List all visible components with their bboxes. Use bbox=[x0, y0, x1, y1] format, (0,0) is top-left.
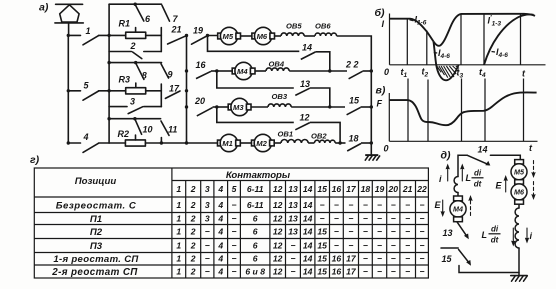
arrow coil right down bbox=[512, 228, 529, 246]
switch 18 bbox=[347, 144, 361, 152]
svg-text:−: − bbox=[231, 214, 236, 224]
graph v gridline t2 bbox=[427, 80, 429, 142]
svg-text:6: 6 bbox=[253, 241, 258, 251]
table row line 3 bbox=[34, 238, 428, 240]
wire R2 top rail bbox=[109, 118, 161, 120]
svg-text:М3: М3 bbox=[233, 103, 244, 112]
wire feeder bus bbox=[67, 35, 69, 143]
wire OB2 to sw18 bbox=[335, 142, 345, 144]
svg-text:−: − bbox=[290, 254, 295, 264]
switch 1 bbox=[68, 35, 109, 44]
svg-text:4: 4 bbox=[217, 241, 223, 251]
table row bezreostat bbox=[56, 200, 425, 212]
graph v gridline t1 bbox=[407, 79, 409, 142]
svg-text:4: 4 bbox=[217, 227, 223, 237]
graph v gridline t bbox=[523, 79, 525, 142]
node center bus row1 bbox=[185, 34, 188, 37]
svg-text:ОВ5: ОВ5 bbox=[286, 22, 302, 31]
svg-text:−: − bbox=[405, 241, 410, 251]
svg-text:1-я реостат. СП: 1-я реостат. СП bbox=[53, 254, 139, 265]
motor M2 bbox=[252, 134, 275, 151]
svg-text:2 2: 2 2 bbox=[345, 60, 359, 70]
svg-text:2: 2 bbox=[190, 184, 196, 194]
svg-text:−: − bbox=[205, 267, 210, 277]
winding OB6 bbox=[315, 33, 337, 36]
svg-text:R1: R1 bbox=[119, 19, 131, 29]
switch 5 bbox=[68, 91, 109, 100]
graph b gridline t4 bbox=[483, 14, 485, 65]
wire center bus bbox=[186, 36, 188, 144]
svg-text:−: − bbox=[363, 267, 368, 277]
wire bypass 13 bbox=[217, 71, 330, 107]
svg-text:1: 1 bbox=[176, 254, 181, 264]
svg-text:1: 1 bbox=[86, 26, 91, 36]
graph b gridline t bbox=[520, 15, 522, 65]
node right bus row4 bbox=[370, 141, 373, 144]
svg-text:П1: П1 bbox=[90, 214, 102, 225]
svg-text:12: 12 bbox=[273, 200, 283, 210]
svg-text:−: − bbox=[334, 214, 339, 224]
svg-text:д): д) bbox=[441, 150, 451, 162]
svg-text:М4: М4 bbox=[237, 67, 248, 76]
wire row3 left of R3 bbox=[109, 90, 126, 92]
ground schematic bbox=[365, 155, 380, 161]
svg-text:19: 19 bbox=[375, 184, 385, 194]
switch 19 bbox=[192, 36, 218, 45]
svg-text:15: 15 bbox=[442, 254, 453, 264]
curve F bbox=[389, 92, 536, 125]
motor M4 bbox=[232, 62, 255, 79]
graph v gridline t3 bbox=[461, 79, 463, 142]
switch 21 bbox=[168, 36, 187, 44]
wire left bus bbox=[108, 4, 110, 143]
switch 10 bbox=[135, 120, 141, 134]
wire R3 top rail bbox=[109, 62, 161, 64]
wire bypass 3 right bbox=[144, 106, 162, 108]
svg-text:−: − bbox=[231, 227, 236, 237]
table line under header bbox=[34, 196, 428, 198]
svg-text:13: 13 bbox=[443, 228, 453, 238]
wire M4 to OB4 bbox=[255, 70, 266, 72]
svg-text:−: − bbox=[231, 200, 236, 210]
node row2 bypass14 bbox=[328, 69, 331, 72]
winding OB5 bbox=[281, 33, 304, 36]
svg-text:4: 4 bbox=[83, 132, 89, 142]
svg-text:М5: М5 bbox=[514, 167, 525, 176]
table row line 1 bbox=[34, 212, 428, 214]
label L di/dt left bbox=[466, 169, 484, 189]
svg-text:−: − bbox=[363, 241, 368, 251]
svg-text:10: 10 bbox=[143, 125, 153, 135]
svg-text:F: F bbox=[377, 99, 383, 109]
motor M6 d bbox=[511, 180, 527, 205]
switch 16 bbox=[196, 71, 218, 79]
wire bypass 3 left bbox=[109, 106, 127, 108]
svg-text:13: 13 bbox=[288, 214, 298, 224]
svg-text:14: 14 bbox=[303, 267, 313, 277]
wire OB5 to OB6 bbox=[304, 35, 315, 37]
motor M5 d bbox=[511, 160, 527, 180]
node row3 bypass13 bbox=[328, 105, 331, 108]
switch 8 bbox=[136, 64, 144, 80]
wire row2 to sw22 bbox=[289, 70, 347, 72]
wire R2 right stub bbox=[160, 138, 162, 143]
svg-text:Позиции: Позиции bbox=[75, 176, 117, 187]
switch 4 bbox=[68, 143, 109, 152]
svg-text:1: 1 bbox=[176, 267, 181, 277]
switch 6 bbox=[136, 5, 144, 21]
node left bus R3 rail bbox=[107, 61, 110, 64]
graph b axes bbox=[390, 14, 546, 65]
node row4 R2 right bbox=[160, 141, 163, 144]
svg-text:ОВ2: ОВ2 bbox=[311, 132, 327, 141]
svg-text:−: − bbox=[320, 214, 325, 224]
svg-text:П3: П3 bbox=[90, 241, 103, 252]
switch 3 bbox=[128, 107, 143, 114]
svg-text:di: di bbox=[491, 225, 499, 234]
svg-text:12: 12 bbox=[273, 267, 283, 277]
wire row3 right of R3 bbox=[146, 90, 162, 92]
graph b gridline t1 bbox=[406, 19, 408, 65]
svg-text:−: − bbox=[348, 214, 353, 224]
node center bus row4 bbox=[185, 141, 188, 144]
wire row3 to M3 bbox=[217, 106, 228, 108]
wire row1 left of R1 bbox=[109, 34, 126, 36]
arrow E left bbox=[441, 200, 444, 216]
wire bypass 14 bbox=[208, 36, 330, 72]
svg-text:12: 12 bbox=[273, 184, 283, 194]
motor M3 bbox=[228, 98, 251, 115]
table row P2 bbox=[90, 227, 425, 239]
svg-text:13: 13 bbox=[288, 184, 298, 194]
svg-text:14: 14 bbox=[303, 200, 313, 210]
svg-text:9: 9 bbox=[168, 70, 173, 80]
arrow E right bbox=[504, 176, 507, 192]
svg-text:6-11: 6-11 bbox=[247, 184, 264, 194]
svg-text:17: 17 bbox=[346, 267, 357, 277]
switch 13 d bbox=[457, 222, 468, 238]
wire M3 to OB3 bbox=[251, 106, 268, 108]
svg-text:−: − bbox=[348, 227, 353, 237]
svg-text:4: 4 bbox=[217, 267, 223, 277]
motor M5 bbox=[218, 27, 241, 44]
svg-text:2: 2 bbox=[190, 241, 196, 251]
svg-text:20: 20 bbox=[388, 184, 399, 194]
svg-text:R3: R3 bbox=[119, 75, 131, 85]
svg-text:−: − bbox=[419, 227, 424, 237]
svg-text:12: 12 bbox=[273, 254, 283, 264]
svg-text:17: 17 bbox=[346, 254, 357, 264]
svg-text:−: − bbox=[419, 200, 424, 210]
wire row1 to right bus bbox=[337, 36, 372, 155]
motor M6 bbox=[252, 27, 275, 44]
svg-text:а): а) bbox=[39, 2, 49, 14]
svg-text:3: 3 bbox=[205, 184, 210, 194]
svg-text:П2: П2 bbox=[90, 227, 103, 238]
svg-text:М1: М1 bbox=[222, 139, 233, 148]
svg-text:М2: М2 bbox=[256, 139, 267, 148]
svg-text:−: − bbox=[363, 227, 368, 237]
arrow i left pair bbox=[446, 165, 464, 182]
switch 9 bbox=[161, 64, 169, 78]
svg-text:−: − bbox=[231, 254, 236, 264]
node right bus row3 bbox=[370, 105, 373, 108]
svg-text:3: 3 bbox=[205, 214, 210, 224]
label L di/dt right bbox=[482, 225, 501, 245]
svg-text:4: 4 bbox=[217, 254, 223, 264]
svg-text:−: − bbox=[363, 254, 368, 264]
svg-text:16: 16 bbox=[332, 267, 342, 277]
svg-text:М6: М6 bbox=[514, 188, 525, 197]
svg-text:−: − bbox=[405, 214, 410, 224]
svg-text:−: − bbox=[205, 254, 210, 264]
ground d bbox=[511, 276, 527, 282]
node row1 tap14 bbox=[206, 34, 209, 37]
table row P1 bbox=[90, 214, 425, 226]
svg-text:14: 14 bbox=[303, 184, 313, 194]
arrows dashed right branch bbox=[533, 161, 535, 198]
svg-text:ОВ4: ОВ4 bbox=[269, 60, 285, 69]
graph b gridline t2 bbox=[426, 31, 428, 65]
curve I4-6 reverse lobe bbox=[434, 42, 459, 81]
svg-text:dt: dt bbox=[491, 236, 499, 245]
svg-text:−: − bbox=[419, 267, 424, 277]
switch 15 d bbox=[459, 250, 471, 265]
svg-text:−: − bbox=[405, 254, 410, 264]
svg-text:−: − bbox=[205, 227, 210, 237]
svg-text:М5: М5 bbox=[223, 32, 234, 41]
svg-text:в): в) bbox=[376, 85, 386, 97]
svg-text:dt: dt bbox=[474, 180, 482, 189]
svg-text:13: 13 bbox=[288, 227, 298, 237]
svg-text:16: 16 bbox=[196, 60, 207, 70]
svg-text:12: 12 bbox=[300, 113, 310, 123]
table col line pos bbox=[171, 168, 173, 278]
svg-text:17: 17 bbox=[346, 184, 357, 194]
svg-text:−: − bbox=[377, 214, 382, 224]
svg-text:ОВ3: ОВ3 bbox=[272, 92, 288, 101]
switch 14 d bbox=[458, 155, 520, 176]
svg-text:−: − bbox=[405, 227, 410, 237]
svg-text:−: − bbox=[391, 254, 396, 264]
switch 17 bbox=[165, 91, 180, 98]
resistor R3 bbox=[126, 83, 146, 94]
svg-text:4: 4 bbox=[217, 200, 223, 210]
table row 1ya reostat bbox=[53, 254, 424, 266]
svg-text:−: − bbox=[231, 267, 236, 277]
svg-text:−: − bbox=[391, 214, 396, 224]
svg-text:14: 14 bbox=[478, 145, 488, 155]
svg-text:−: − bbox=[377, 227, 382, 237]
svg-text:11: 11 bbox=[168, 125, 177, 135]
svg-text:4: 4 bbox=[217, 184, 223, 194]
svg-text:6: 6 bbox=[253, 214, 258, 224]
svg-text:ОВ1: ОВ1 bbox=[278, 130, 294, 139]
wire coil to M4 bbox=[457, 193, 459, 197]
svg-text:−: − bbox=[377, 267, 382, 277]
wire R1 right node vertical bbox=[160, 28, 162, 52]
node center bus row3 bbox=[185, 105, 188, 108]
svg-text:б): б) bbox=[375, 7, 386, 19]
curve I1-6 bbox=[390, 19, 434, 42]
wire M6 to OB5 bbox=[275, 35, 282, 37]
svg-text:14: 14 bbox=[303, 214, 313, 224]
svg-text:22: 22 bbox=[416, 184, 427, 194]
svg-text:16: 16 bbox=[332, 184, 342, 194]
switch 7 bbox=[162, 5, 170, 21]
table row line 4 bbox=[34, 252, 428, 254]
wire M6 to coil bbox=[518, 204, 520, 208]
svg-text:4: 4 bbox=[217, 214, 223, 224]
motor M1 bbox=[218, 134, 241, 151]
resistor R1 bbox=[126, 28, 146, 39]
svg-text:15: 15 bbox=[317, 184, 327, 194]
svg-text:13: 13 bbox=[288, 200, 298, 210]
winding OB1 bbox=[281, 139, 308, 143]
svg-text:19: 19 bbox=[193, 26, 203, 36]
svg-text:21: 21 bbox=[171, 25, 182, 35]
node left bus R2 rail bbox=[107, 117, 110, 120]
inductor L right bbox=[515, 208, 519, 248]
svg-text:3: 3 bbox=[205, 200, 210, 210]
svg-text:6: 6 bbox=[253, 254, 258, 264]
svg-text:21: 21 bbox=[402, 184, 413, 194]
table header texts bbox=[75, 170, 291, 187]
svg-text:12: 12 bbox=[273, 241, 283, 251]
svg-text:−: − bbox=[405, 267, 410, 277]
svg-text:−: − bbox=[290, 267, 295, 277]
svg-text:2: 2 bbox=[190, 214, 196, 224]
svg-text:1: 1 bbox=[176, 214, 181, 224]
svg-text:−: − bbox=[334, 241, 339, 251]
svg-text:14: 14 bbox=[303, 241, 313, 251]
svg-text:−: − bbox=[377, 200, 382, 210]
svg-text:−: − bbox=[405, 200, 410, 210]
wire coil to ground bbox=[518, 248, 520, 276]
winding OB2 bbox=[314, 140, 335, 143]
pointer I1-6 bbox=[410, 20, 414, 21]
svg-text:R2: R2 bbox=[118, 129, 130, 139]
arrow dashed M4 bbox=[470, 198, 472, 216]
svg-text:6-11: 6-11 bbox=[247, 200, 264, 210]
svg-text:−: − bbox=[419, 241, 424, 251]
table row line 2 bbox=[34, 224, 428, 226]
winding OB4 bbox=[266, 68, 289, 71]
svg-text:2: 2 bbox=[130, 41, 136, 51]
wire row3 to sw15 bbox=[291, 106, 345, 108]
winding OB3 bbox=[268, 104, 291, 107]
wire sw18 to bus bbox=[361, 142, 371, 144]
graph v gridline t4 bbox=[484, 79, 486, 142]
wire row1 right of R1 bbox=[146, 34, 162, 36]
svg-text:1: 1 bbox=[176, 241, 181, 251]
pointer I4-6a bbox=[434, 52, 437, 55]
node row3 tap12 bbox=[215, 105, 218, 108]
switch 22 bbox=[349, 71, 363, 79]
node feeder row3 bbox=[67, 89, 70, 92]
svg-text:5: 5 bbox=[232, 184, 237, 194]
node center bus row3sec bbox=[185, 89, 188, 92]
svg-text:−: − bbox=[231, 241, 236, 251]
svg-text:−: − bbox=[348, 241, 353, 251]
switch 15 bbox=[347, 107, 361, 114]
svg-text:8: 8 bbox=[142, 71, 147, 81]
svg-text:12: 12 bbox=[273, 227, 283, 237]
svg-text:L: L bbox=[466, 173, 472, 183]
resistor R2 bbox=[125, 135, 145, 146]
svg-text:13: 13 bbox=[300, 79, 310, 89]
node R2 rail tap bbox=[133, 117, 136, 120]
svg-text:15: 15 bbox=[317, 267, 327, 277]
curve I4-6 rising bbox=[484, 14, 534, 64]
svg-text:ОВ6: ОВ6 bbox=[315, 22, 331, 31]
pantograph XA bbox=[55, 4, 83, 35]
wire stub 15 bbox=[441, 247, 458, 249]
table header line kontaktory bbox=[172, 180, 429, 182]
svg-text:6: 6 bbox=[253, 227, 258, 237]
svg-text:14: 14 bbox=[303, 227, 313, 237]
table col lines bbox=[186, 181, 416, 279]
node R3 rail tap bbox=[134, 61, 137, 64]
svg-text:1: 1 bbox=[176, 184, 181, 194]
svg-text:E: E bbox=[435, 200, 442, 210]
node row4 bypass12 bbox=[338, 141, 341, 144]
graph b gridline t3 bbox=[460, 14, 462, 65]
svg-text:−: − bbox=[391, 241, 396, 251]
wire row2 to M4 bbox=[217, 70, 232, 72]
node feeder row4 bbox=[67, 141, 70, 144]
svg-text:2: 2 bbox=[190, 267, 196, 277]
node right bus row2 bbox=[370, 69, 373, 72]
svg-text:15: 15 bbox=[317, 254, 327, 264]
wire R3 right node vertical bbox=[160, 84, 162, 107]
wire bypass 12 bbox=[217, 107, 340, 143]
svg-text:г): г) bbox=[30, 154, 40, 166]
svg-text:2: 2 bbox=[190, 254, 196, 264]
table outer frame bbox=[34, 168, 428, 278]
svg-text:−: − bbox=[419, 254, 424, 264]
wire M2 to OB1 bbox=[274, 142, 281, 144]
svg-text:0: 0 bbox=[384, 67, 389, 77]
node center bus row2 bbox=[185, 69, 188, 72]
svg-text:16: 16 bbox=[332, 254, 342, 264]
switch 2 bbox=[133, 52, 142, 59]
node R1 rail tap bbox=[134, 2, 137, 5]
svg-text:−: − bbox=[334, 227, 339, 237]
svg-text:−: − bbox=[391, 200, 396, 210]
svg-text:−: − bbox=[391, 227, 396, 237]
switch 11 bbox=[161, 121, 169, 135]
table row line 5 bbox=[34, 264, 428, 266]
svg-text:−: − bbox=[363, 214, 368, 224]
svg-text:18: 18 bbox=[349, 134, 359, 144]
wire sw22 to bus bbox=[363, 70, 372, 72]
svg-text:2: 2 bbox=[190, 227, 196, 237]
svg-text:12: 12 bbox=[273, 214, 283, 224]
table header numbers bbox=[176, 184, 427, 194]
svg-text:17: 17 bbox=[169, 84, 180, 94]
wire sw15 to bus bbox=[361, 106, 372, 108]
hatching of lobe bbox=[437, 66, 459, 79]
svg-text:−: − bbox=[320, 200, 325, 210]
inductor L left bbox=[454, 177, 458, 193]
svg-text:15: 15 bbox=[317, 227, 327, 237]
motor M4 d bbox=[450, 196, 466, 222]
wire between M5 M6 bbox=[241, 35, 252, 37]
svg-text:−: − bbox=[363, 200, 368, 210]
svg-text:−: − bbox=[334, 200, 339, 210]
svg-text:15: 15 bbox=[349, 96, 360, 106]
